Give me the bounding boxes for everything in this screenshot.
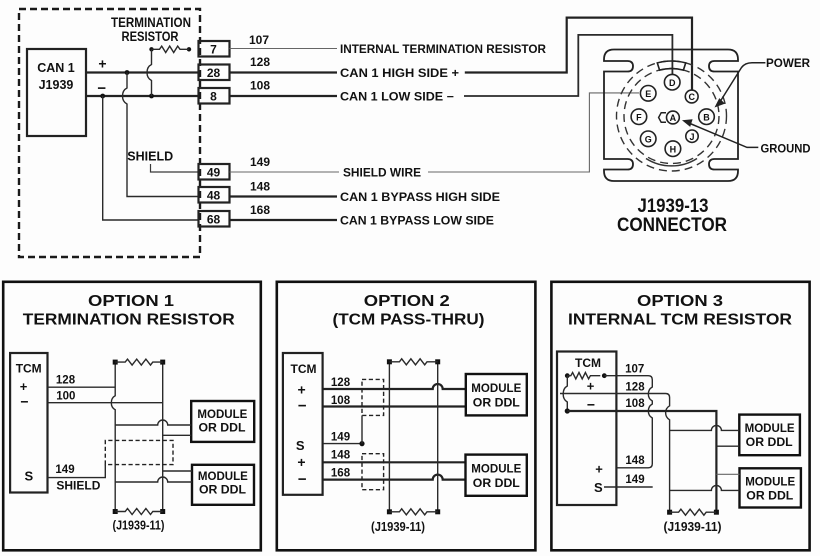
pin H xyxy=(665,141,681,157)
svg-text:CAN 1 LOW SIDE −: CAN 1 LOW SIDE − xyxy=(340,92,454,104)
svg-text:(J1939-11): (J1939-11) xyxy=(371,520,425,534)
pin C xyxy=(685,90,698,103)
svg-text:OR DDL: OR DDL xyxy=(199,485,246,497)
option2 shield vertical link xyxy=(361,415,363,443)
option1 module1 high wire with hop xyxy=(115,420,191,425)
pin box 28 xyxy=(199,65,230,81)
option3 module1 low wire xyxy=(716,445,739,447)
svg-text:49: 49 xyxy=(207,166,221,180)
option2 wire 128 with hop to module1 xyxy=(323,377,466,389)
svg-text:168: 168 xyxy=(331,468,351,480)
option1 TCM box xyxy=(10,353,47,493)
svg-text:E: E xyxy=(645,89,651,99)
svg-text:C: C xyxy=(688,92,695,102)
svg-text:OPTION 2: OPTION 2 xyxy=(364,293,450,310)
termination resistor R with squiggle to - wire xyxy=(147,46,191,96)
termination resistor label xyxy=(111,15,191,44)
svg-text:CONNECTOR: CONNECTOR xyxy=(617,215,727,236)
svg-text:SHIELD WIRE: SHIELD WIRE xyxy=(343,168,421,180)
option3 resistor loop to low side xyxy=(563,376,567,411)
option3 wire 108 low side xyxy=(567,398,716,512)
svg-text:POWER: POWER xyxy=(766,58,811,70)
pin G xyxy=(640,131,656,147)
pin E xyxy=(640,86,656,102)
svg-text:−: − xyxy=(298,398,307,415)
svg-text:MODULE: MODULE xyxy=(745,477,795,489)
svg-text:INTERNAL TERMINATION RESISTOR: INTERNAL TERMINATION RESISTOR xyxy=(340,44,547,56)
svg-text:OR DDL: OR DDL xyxy=(473,398,520,410)
svg-text:MODULE: MODULE xyxy=(471,383,521,395)
svg-text:128: 128 xyxy=(56,374,76,386)
svg-text:MODULE: MODULE xyxy=(197,409,247,421)
svg-text:149: 149 xyxy=(250,155,270,169)
svg-text:108: 108 xyxy=(625,398,645,410)
option3 TCM box xyxy=(557,352,616,506)
option1 module2 box xyxy=(192,465,254,505)
option2 module1 box xyxy=(466,374,527,415)
svg-text:+: + xyxy=(98,55,106,71)
svg-text:+: + xyxy=(587,379,595,394)
option 2 panel border xyxy=(277,282,536,551)
option2 lower dashed pass box xyxy=(362,454,384,490)
option3 bottom resistor xyxy=(667,509,719,515)
svg-text:H: H xyxy=(670,144,677,154)
option1 wire 100 xyxy=(48,391,163,403)
svg-text:CAN 1 HIGH SIDE +: CAN 1 HIGH SIDE + xyxy=(340,68,459,80)
SHIELD label with leader to pin 49 xyxy=(127,150,198,173)
svg-text:S: S xyxy=(24,469,33,484)
svg-text:−: − xyxy=(20,394,28,410)
svg-text:149: 149 xyxy=(625,474,644,486)
option2 TCM box xyxy=(283,353,323,495)
option2 wire 148 xyxy=(323,450,466,463)
connector keyway arc xyxy=(657,61,685,70)
svg-text:OR DDL: OR DDL xyxy=(473,478,520,490)
option 3 panel border xyxy=(551,282,809,551)
wire 168 CAN 1 bypass low side xyxy=(230,203,495,228)
wire 108 CAN 1 low side to pin D xyxy=(230,35,673,104)
wire 107 internal termination resistor xyxy=(230,33,547,56)
svg-text:68: 68 xyxy=(207,213,221,227)
svg-text:149: 149 xyxy=(331,431,350,443)
svg-text:SHIELD: SHIELD xyxy=(127,150,173,164)
svg-text:B: B xyxy=(703,112,710,122)
svg-text:OR DDL: OR DDL xyxy=(199,423,246,435)
svg-text:TERMINATION: TERMINATION xyxy=(111,15,191,30)
pin box 7 xyxy=(199,41,230,57)
svg-text:CAN 1: CAN 1 xyxy=(37,61,75,75)
option2 upper dashed pass box xyxy=(362,379,384,415)
option3 module1 box xyxy=(739,415,800,456)
junction on - wire xyxy=(100,94,105,99)
svg-text:107: 107 xyxy=(625,364,644,376)
option1 bottom resistor xyxy=(113,509,166,515)
TCM dashed enclosure xyxy=(19,9,200,257)
svg-text:CAN 1 BYPASS HIGH SIDE: CAN 1 BYPASS HIGH SIDE xyxy=(340,192,500,204)
option3 wire 128 to 148 jumper xyxy=(560,382,670,513)
wire + down to pin 48 (hop over - wire) xyxy=(123,73,199,197)
option2 module2 box xyxy=(466,455,527,496)
svg-text:A: A xyxy=(670,113,677,123)
pin box 49 xyxy=(199,164,230,180)
option2 top resistor xyxy=(387,359,440,365)
option1 wire 128 xyxy=(48,374,116,387)
svg-text:MODULE: MODULE xyxy=(471,464,521,476)
pin D xyxy=(664,74,680,90)
GROUND label with arrow to pin A xyxy=(682,119,811,155)
svg-text:OR DDL: OR DDL xyxy=(746,491,793,503)
connector bottom solid arc xyxy=(646,159,697,166)
svg-text:D: D xyxy=(669,78,676,88)
option1 top resistor xyxy=(113,359,166,365)
svg-text:148: 148 xyxy=(250,180,270,194)
pin box 48 xyxy=(199,187,230,203)
option1 left bus vertical with hop at 100 wire xyxy=(111,362,115,511)
svg-text:(J1939-11): (J1939-11) xyxy=(113,519,165,533)
option1 shield dashed routing box xyxy=(105,440,173,464)
junction resistor vertical to - wire xyxy=(149,94,154,99)
svg-text:8: 8 xyxy=(210,90,217,104)
svg-text:S: S xyxy=(296,438,305,453)
svg-text:7: 7 xyxy=(210,43,217,57)
svg-text:OR DDL: OR DDL xyxy=(746,437,793,449)
junction on + wire xyxy=(125,70,130,75)
option 3 title xyxy=(568,293,792,329)
option3 module2 box xyxy=(740,468,801,507)
option2 wire 149 with junction dot xyxy=(323,431,365,446)
svg-text:TCM: TCM xyxy=(575,356,601,370)
svg-text:(J1939-11): (J1939-11) xyxy=(664,520,722,534)
svg-text:J1939-13: J1939-13 xyxy=(638,196,709,217)
wire - down to pin 68 xyxy=(103,96,198,220)
option1 wire 149 shield xyxy=(48,464,106,493)
option 1 title xyxy=(23,293,235,329)
option2 wire 108 xyxy=(323,395,466,407)
svg-text:−: − xyxy=(298,471,307,488)
pin box 68 xyxy=(199,211,230,227)
svg-text:+: + xyxy=(20,379,28,394)
wire CAN1 - to pin 8 xyxy=(86,95,198,97)
option3 internal resistor with dots xyxy=(565,373,607,379)
wire 148 CAN 1 bypass high side xyxy=(230,180,501,205)
pin F xyxy=(631,109,647,125)
svg-text:+: + xyxy=(297,454,305,470)
svg-text:J: J xyxy=(689,132,694,142)
svg-text:SHIELD: SHIELD xyxy=(56,479,100,493)
svg-text:MODULE: MODULE xyxy=(198,471,248,483)
svg-text:168: 168 xyxy=(250,203,270,217)
CAN 1 J1939 control box xyxy=(27,49,86,136)
svg-text:J1939: J1939 xyxy=(39,78,74,92)
option2 bottom resistor xyxy=(387,509,440,515)
pin A with key tab xyxy=(659,111,680,124)
svg-text:OPTION 1: OPTION 1 xyxy=(88,293,174,310)
svg-text:148: 148 xyxy=(331,450,351,462)
option3 junction dot low xyxy=(565,408,570,413)
svg-text:+: + xyxy=(595,462,603,477)
pin box 8 xyxy=(199,88,230,104)
option3 module2 high wire xyxy=(716,473,739,475)
svg-text:S: S xyxy=(594,480,603,495)
pin B xyxy=(699,109,715,125)
option1 module2 low wire with hop xyxy=(115,477,192,482)
svg-text:OPTION 3: OPTION 3 xyxy=(637,293,723,310)
connector outer ring xyxy=(617,61,727,171)
pin J xyxy=(686,130,698,142)
svg-text:MODULE: MODULE xyxy=(745,423,795,435)
option3 module2 low wire with hop xyxy=(670,485,740,490)
svg-text:149: 149 xyxy=(55,464,74,476)
option1 module1 box xyxy=(191,401,254,442)
svg-text:48: 48 xyxy=(207,189,221,203)
svg-text:108: 108 xyxy=(250,79,270,93)
connector inner ring xyxy=(624,69,719,164)
svg-text:GROUND: GROUND xyxy=(761,144,811,156)
svg-text:CAN 1 BYPASS LOW SIDE: CAN 1 BYPASS LOW SIDE xyxy=(340,216,494,228)
option3 wire 107 with jumpers xyxy=(604,364,652,468)
svg-text:108: 108 xyxy=(331,395,351,407)
option2 left bus vertical xyxy=(388,362,390,512)
J1939-13 connector body xyxy=(604,50,738,182)
svg-text:TCM: TCM xyxy=(16,362,42,376)
svg-text:+: + xyxy=(298,382,306,398)
svg-text:28: 28 xyxy=(207,66,221,80)
svg-text:TCM: TCM xyxy=(291,362,317,376)
option1 module2 high wire xyxy=(163,470,192,472)
svg-text:128: 128 xyxy=(250,55,270,69)
J1939-13 connector caption xyxy=(617,196,727,236)
POWER label with arrow to pin B xyxy=(715,58,811,108)
svg-text:100: 100 xyxy=(56,391,75,403)
option2 wire 168 with hop xyxy=(323,468,466,480)
wire 149 shield wire to pin E xyxy=(230,93,640,180)
option3 wire 149 stub xyxy=(604,474,653,487)
svg-text:148: 148 xyxy=(625,455,645,467)
option 2 title xyxy=(333,293,485,329)
svg-text:RESISTOR: RESISTOR xyxy=(122,29,179,44)
option2 right bus vertical xyxy=(437,362,439,512)
option1 right bus vertical xyxy=(162,362,164,511)
svg-text:G: G xyxy=(645,135,652,145)
option3 module1 high wire with hop xyxy=(670,425,740,430)
svg-text:128: 128 xyxy=(625,382,645,394)
wire CAN1 + to pin 28 xyxy=(86,71,198,73)
wire 128 CAN 1 high side to pin C xyxy=(230,18,693,90)
svg-text:F: F xyxy=(636,112,642,122)
svg-text:107: 107 xyxy=(249,33,269,47)
svg-text:(TCM PASS-THRU): (TCM PASS-THRU) xyxy=(333,312,485,329)
svg-text:128: 128 xyxy=(331,377,351,389)
option 1 panel border xyxy=(3,282,261,551)
svg-text:INTERNAL TCM RESISTOR: INTERNAL TCM RESISTOR xyxy=(568,312,792,329)
option1 module1 low wire xyxy=(163,434,192,436)
svg-text:TERMINATION RESISTOR: TERMINATION RESISTOR xyxy=(23,312,235,329)
